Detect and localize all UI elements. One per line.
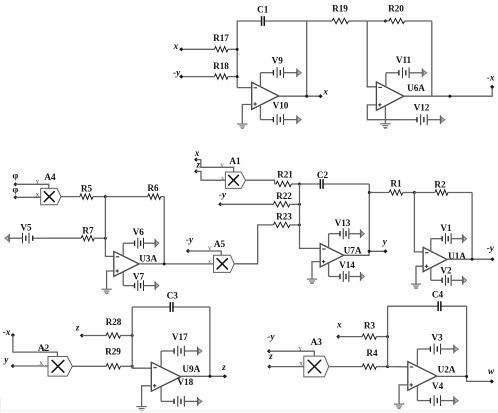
- svg-text:V18: V18: [177, 377, 193, 387]
- wire V- stub U9A: [160, 386, 162, 401]
- resistor R28: [82, 333, 132, 338]
- wire U6A output to -x terminal: [404, 87, 492, 96]
- wire non-inv input to ground rail: [367, 105, 404, 120]
- wire V- stub U3A: [122, 272, 124, 286]
- terminal phi 2: [13, 195, 17, 199]
- wire U1A non-inv to ground: [416, 266, 423, 284]
- svg-text:V3: V3: [431, 333, 443, 343]
- svg-text:x: x: [194, 148, 200, 158]
- svg-text:U6A: U6A: [407, 83, 425, 93]
- svg-text:Y: Y: [220, 163, 224, 169]
- resistor R20: [386, 18, 432, 23]
- junction R4/rail: [386, 365, 389, 368]
- ground (U6A): [380, 124, 390, 129]
- resistor R4: [362, 364, 387, 369]
- terminal w (output): [490, 379, 494, 383]
- wire R6 feedback vertical: [163, 197, 165, 264]
- wire U9A output to z terminal: [181, 375, 225, 377]
- op-amp U7A: [320, 244, 344, 267]
- svg-text:Y: Y: [208, 246, 212, 252]
- wire rail C4/R3/R4: [387, 306, 389, 366]
- svg-text:V13: V13: [335, 218, 351, 228]
- resistor R6: [105, 194, 164, 199]
- terminal -y input R22: [218, 202, 222, 206]
- junction R21/C2/rail: [298, 183, 301, 186]
- svg-text:C2: C2: [317, 170, 329, 180]
- junction R3/rail: [386, 335, 389, 338]
- ground (U1A): [411, 284, 421, 289]
- resistor R19: [307, 18, 368, 23]
- battery V6: [123, 238, 159, 249]
- svg-text:-y: -y: [173, 67, 181, 77]
- terminal -x input A2: [11, 333, 15, 337]
- resistor R21: [275, 181, 300, 186]
- battery V18: [161, 396, 202, 407]
- battery V5: [5, 233, 46, 244]
- terminal x input A1: [194, 158, 198, 162]
- svg-text:X: X: [35, 193, 39, 199]
- svg-text:φ: φ: [12, 186, 18, 196]
- resistor R1: [369, 190, 414, 195]
- wire V+ stub U9A: [160, 351, 162, 367]
- wire C1 feedback vertical: [306, 21, 308, 96]
- junction feedback/output U1A: [471, 258, 474, 261]
- page border (decorative): [0, 398, 498, 411]
- svg-text:V17: V17: [172, 332, 188, 342]
- svg-text:R28: R28: [106, 317, 122, 327]
- svg-text:C4: C4: [432, 290, 444, 300]
- junction R17/rail: [236, 48, 239, 51]
- wire V+ stub U7A: [328, 234, 330, 248]
- resistor R17: [183, 47, 237, 52]
- ground (U7A): [307, 279, 317, 284]
- svg-text:U2A: U2A: [438, 364, 456, 374]
- wire -y to A5 Y pin: [188, 251, 221, 255]
- wire V+ stub U1A: [430, 239, 432, 252]
- svg-text:R17: R17: [213, 33, 229, 43]
- wire C2 feedback vertical: [368, 184, 370, 251]
- svg-text:U9A: U9A: [182, 364, 200, 374]
- svg-text:V4: V4: [432, 381, 444, 391]
- multiplier A4: [41, 188, 61, 204]
- capacitor C1: [261, 16, 307, 26]
- battery V17: [161, 346, 202, 357]
- terminal -y (output): [490, 257, 494, 261]
- svg-text:C1: C1: [257, 4, 269, 14]
- svg-text:z: z: [268, 351, 273, 361]
- terminal y input A2: [11, 364, 15, 368]
- svg-text:V5: V5: [20, 223, 32, 233]
- svg-text:R18: R18: [213, 61, 229, 71]
- junction R22/rail: [298, 203, 301, 206]
- wire V+ stub U2A: [416, 349, 418, 366]
- op-amp U2A: [408, 362, 437, 391]
- resistor R3: [338, 334, 387, 339]
- svg-text:x: x: [208, 259, 211, 265]
- terminal z input R28: [80, 333, 84, 337]
- op-amp U3A: [114, 251, 139, 276]
- wire V- pin stub U6A: [384, 105, 386, 120]
- junction feedback/output U2A: [465, 375, 468, 378]
- terminal phi 1: [13, 182, 17, 186]
- resistor R2: [414, 190, 472, 195]
- ground (U2A): [394, 404, 404, 409]
- wire V+ pin stub: [259, 73, 261, 87]
- resistor R22: [220, 202, 299, 207]
- svg-text:A5: A5: [214, 239, 226, 249]
- terminal z input A3: [267, 365, 271, 369]
- wire U7A output to y terminal: [344, 251, 386, 255]
- battery V14: [329, 271, 365, 282]
- battery V7: [123, 280, 159, 291]
- wire z to A1 X pin: [196, 171, 225, 180]
- svg-text:z: z: [75, 322, 80, 332]
- wire U1A output to -y terminal: [447, 258, 492, 260]
- svg-text:X: X: [39, 361, 43, 367]
- wire to U6A inverting input: [367, 21, 376, 87]
- svg-text:x: x: [221, 176, 224, 182]
- wire U2A non-inv to ground: [399, 385, 408, 404]
- resistor R29: [106, 364, 132, 369]
- wire -y to A3 Y pin: [269, 351, 314, 356]
- resistor R18: [183, 74, 237, 79]
- op-amp (unlabeled): [252, 82, 279, 109]
- svg-text:U7A: U7A: [344, 245, 362, 255]
- wire rail to U7A inverting input: [300, 184, 321, 248]
- resistor R5: [61, 194, 106, 199]
- svg-text:R2: R2: [434, 180, 446, 190]
- junction R5/R6/rail: [104, 195, 107, 198]
- battery V9: [260, 67, 301, 78]
- wire A2 output to R29: [72, 365, 106, 367]
- multiplier A1: [225, 172, 245, 188]
- wire C4 feedback vertical: [466, 306, 468, 376]
- wire R2 feedback vertical: [471, 193, 473, 260]
- junction R6 feedback/output: [163, 262, 166, 265]
- svg-text:-x: -x: [3, 327, 11, 337]
- svg-text:R3: R3: [364, 321, 376, 331]
- svg-text:-x: -x: [487, 73, 495, 83]
- battery V13: [329, 228, 365, 239]
- svg-text:C3: C3: [167, 291, 179, 301]
- svg-text:V1: V1: [440, 223, 452, 233]
- wire U3A output to A5: [139, 263, 213, 265]
- battery V2: [431, 275, 467, 286]
- wire y to A2 X pin: [13, 365, 48, 367]
- junction R23/rail: [298, 223, 301, 226]
- svg-text:φ: φ: [12, 172, 18, 182]
- svg-text:R4: R4: [366, 348, 378, 358]
- junction R7/rail: [104, 237, 107, 240]
- junction R20 input: [384, 20, 387, 23]
- svg-text:V14: V14: [339, 260, 355, 270]
- wire R20 feedback vertical: [431, 21, 433, 96]
- capacitor C4: [388, 301, 467, 311]
- svg-text:V2: V2: [440, 266, 452, 276]
- junction R1 tap: [368, 191, 371, 194]
- battery V4: [417, 395, 458, 406]
- svg-text:x: x: [173, 41, 179, 51]
- terminal x input R3: [336, 335, 340, 339]
- op-amp U6A: [376, 82, 404, 110]
- junction feedback/output: [368, 250, 371, 253]
- battery V11: [386, 67, 427, 78]
- multiplier A3: [304, 356, 329, 377]
- wire phi1 to A4 Y pin: [16, 184, 49, 188]
- junction feedback/output U9A: [208, 375, 211, 378]
- wire U7A non-inv to ground: [312, 262, 320, 279]
- wire V+ stub U3A: [122, 243, 124, 256]
- op-amp U1A: [423, 247, 447, 271]
- battery V1: [431, 233, 467, 244]
- battery V10: [260, 114, 301, 125]
- wire C3 feedback vertical: [209, 307, 211, 376]
- svg-text:z: z: [196, 160, 201, 170]
- svg-text:Y: Y: [35, 180, 39, 186]
- wire U9A non-inv to ground: [142, 386, 152, 407]
- svg-text:A2: A2: [38, 343, 50, 353]
- junction R29/rail: [131, 365, 134, 368]
- wire x to A1 Y pin: [196, 160, 233, 172]
- svg-text:X: X: [299, 362, 303, 368]
- svg-text:U3A: U3A: [139, 254, 157, 264]
- svg-text:x: x: [336, 320, 342, 330]
- svg-text:R20: R20: [388, 4, 404, 14]
- wire input rail to C1: [237, 21, 261, 88]
- wire A5 output up to R23: [234, 225, 273, 264]
- terminal -y input A5: [186, 249, 190, 253]
- resistor R23: [273, 222, 299, 227]
- wire ground stem U6A: [384, 120, 386, 124]
- resistor R7: [46, 236, 106, 241]
- svg-text:w: w: [488, 366, 495, 376]
- wire rail to U1A inverting input: [414, 193, 423, 252]
- wire V- stub U2A: [416, 386, 418, 401]
- ground (U9A): [136, 407, 146, 412]
- svg-text:R23: R23: [276, 212, 292, 222]
- wire V- stub U1A: [430, 268, 432, 281]
- terminal -y input A3: [267, 349, 271, 353]
- svg-text:V10: V10: [273, 101, 289, 111]
- svg-text:R7: R7: [82, 225, 94, 235]
- junction on output net: [448, 95, 451, 98]
- svg-text:x: x: [322, 87, 328, 97]
- wire V- pin stub: [259, 105, 261, 120]
- wire -x to A2 Y pin: [13, 335, 58, 356]
- svg-text:R19: R19: [332, 4, 348, 14]
- terminal y (output): [383, 249, 387, 253]
- svg-text:-y: -y: [186, 235, 194, 245]
- capacitor C2: [300, 179, 370, 189]
- wire non-inverting input to ground: [242, 105, 251, 124]
- svg-text:R1: R1: [390, 179, 402, 189]
- svg-text:-y: -y: [487, 243, 495, 253]
- wire R19 to R20: [367, 20, 385, 22]
- svg-text:R5: R5: [81, 184, 93, 194]
- wire input rail to U3A inverting input: [105, 197, 113, 257]
- svg-text:V7: V7: [133, 272, 145, 282]
- junction R28/rail: [131, 334, 134, 337]
- wire to op-amp inverting input: [237, 87, 252, 89]
- wire z to A3 X pin: [270, 366, 304, 368]
- wire phi2 to A4 X pin: [16, 196, 41, 198]
- terminal x (output): [318, 94, 322, 98]
- battery V3: [417, 344, 458, 355]
- wire A3 output to R4: [329, 366, 363, 368]
- junction R18/rail: [236, 75, 239, 78]
- wire op-amp output to x terminal: [279, 95, 321, 97]
- terminal z (output): [223, 374, 227, 378]
- svg-text:V6: V6: [133, 227, 145, 237]
- wire V- stub U7A: [328, 263, 330, 277]
- svg-text:A4: A4: [44, 172, 56, 182]
- wire to U2A inverting input: [388, 366, 408, 368]
- svg-text:R6: R6: [147, 183, 159, 193]
- wire A1 output to R21: [246, 180, 275, 184]
- wire U3A non-inv to ground: [107, 271, 114, 289]
- op-amp U9A: [151, 362, 181, 391]
- wire rail to U9A inverting input: [132, 307, 151, 368]
- wire U2A output to w terminal: [437, 376, 492, 381]
- svg-text:Y: Y: [298, 346, 302, 352]
- svg-text:-y: -y: [267, 331, 275, 341]
- svg-text:A1: A1: [229, 156, 241, 166]
- terminal -y (input): [179, 75, 183, 79]
- terminal z input A1: [194, 169, 198, 173]
- multiplier A5: [214, 255, 235, 272]
- svg-text:V9: V9: [272, 56, 284, 66]
- ground (op-amp 1): [237, 124, 247, 129]
- svg-text:R21: R21: [277, 170, 293, 180]
- svg-text:z: z: [221, 362, 226, 372]
- multiplier A2: [48, 357, 72, 377]
- terminal -x (output): [490, 85, 494, 89]
- ground (U3A): [101, 289, 111, 294]
- svg-text:A3: A3: [311, 337, 323, 347]
- junction output/feedback: [305, 95, 308, 98]
- svg-text:-y: -y: [219, 189, 227, 199]
- wire V+ pin stub U6A: [385, 73, 387, 87]
- svg-text:R29: R29: [105, 346, 121, 356]
- junction R1/R2/rail: [413, 191, 416, 194]
- svg-text:V11: V11: [396, 55, 412, 65]
- battery V12: [404, 114, 445, 125]
- svg-text:R22: R22: [276, 191, 292, 201]
- capacitor C3: [132, 302, 210, 312]
- terminal x (input): [179, 47, 183, 51]
- svg-text:V12: V12: [414, 103, 430, 113]
